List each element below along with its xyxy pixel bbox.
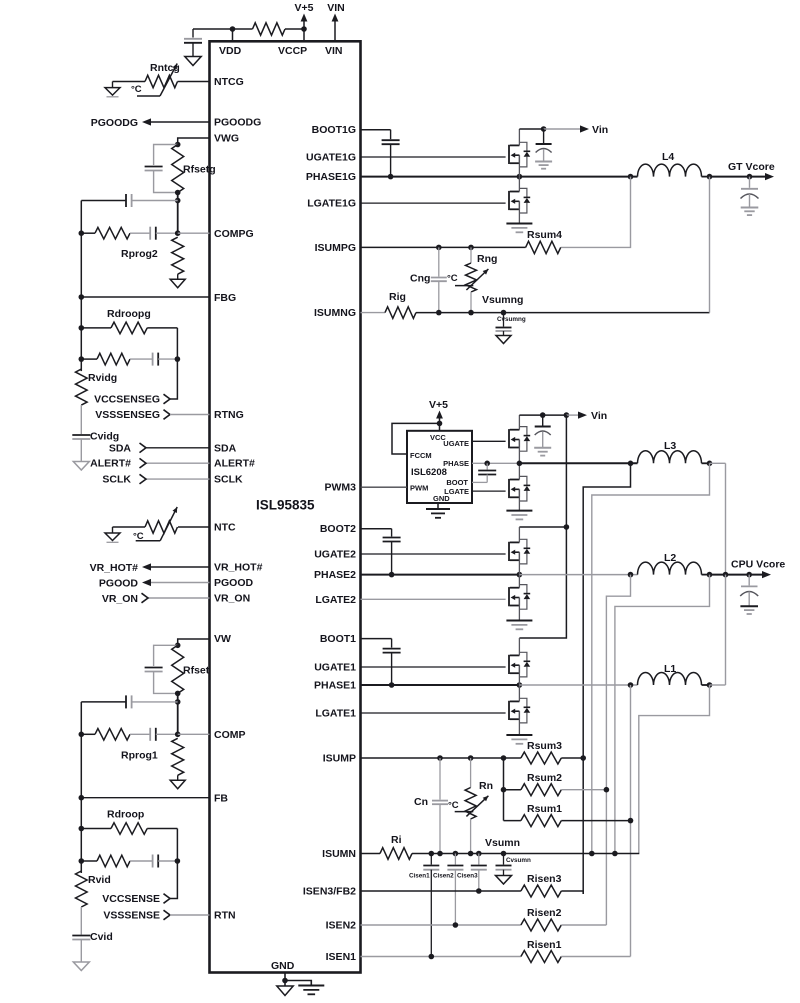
ground below VDD capacitor [185, 57, 201, 66]
connector VCCSENSE [164, 894, 171, 904]
capacitor Vin decoupling phase3 [542, 415, 544, 425]
ground below Rprog2 [170, 279, 185, 288]
node VCCP stub [303, 29, 305, 41]
power V+5 arrow U2 [439, 414, 441, 423]
capacitor parallel with Rfsetg [145, 166, 163, 168]
svg-text:BOOT2: BOOT2 [320, 523, 356, 535]
wire ISUMNG riser to GT Vcore [709, 177, 711, 313]
connector VSSSENSEG [164, 410, 171, 420]
wire Vcore riser lower [725, 575, 727, 685]
transistor Q2 low-side GT [509, 188, 530, 213]
wire LGATE2 [361, 598, 506, 600]
connector ALERT# [140, 458, 147, 468]
wire Vcore riser upper [725, 463, 727, 574]
arrow CPU Vcore [762, 571, 771, 578]
svg-text:V+5: V+5 [295, 2, 314, 14]
svg-text:Vsumng: Vsumng [482, 294, 523, 306]
capacitor bootstrap 1G [390, 130, 392, 140]
capacitor bootstrap U2 [486, 463, 488, 469]
capacitor comp series [149, 728, 151, 741]
ground below GT Vcore cap [741, 207, 759, 209]
wire Risen1 to phase1 sense [561, 956, 630, 958]
ground below Cvid [73, 962, 89, 971]
svg-text:FB: FB [214, 792, 228, 804]
svg-text:RTNG: RTNG [214, 409, 244, 421]
svg-text:L1: L1 [664, 663, 676, 675]
wire ISEN2 [361, 924, 521, 926]
wire CPU Vcore rail [710, 574, 764, 576]
svg-text:Rdroopg: Rdroopg [107, 308, 151, 320]
wire Q3 drain to Vin [518, 415, 520, 430]
transistor Q8 low-side phase1 [509, 698, 530, 723]
svg-text:UGATE2: UGATE2 [314, 549, 356, 561]
ground earth at GND pin [298, 985, 324, 987]
resistor RC branch [97, 855, 130, 867]
wire phase2 line to L2 [519, 574, 637, 576]
svg-text:Rdroop: Rdroop [107, 809, 144, 821]
wire SDA [146, 447, 210, 449]
op-amp U1 ISL95835 IC body [210, 41, 361, 972]
node L1 output [707, 682, 713, 688]
wire vid cap stem [80, 907, 82, 935]
wire Q4 drain to phase [518, 463, 520, 479]
svg-text:VR_HOT#: VR_HOT# [90, 562, 139, 574]
capacitor Cisen1 [430, 854, 432, 865]
wire left vertical below FB [80, 798, 82, 873]
node VCC U2 [437, 421, 443, 427]
wire Vin rail lower [519, 527, 566, 638]
node CPU Vcore cap [746, 572, 752, 578]
capacitor Cisen2 [454, 854, 456, 865]
wire Q2 source to ground [518, 201, 520, 223]
resistor Rvid [76, 871, 88, 907]
node Cisen2 tap [453, 851, 459, 857]
wire phase3 sense bend [583, 463, 630, 758]
wire Rsum2 [504, 789, 521, 791]
node Rsum3 to phase3 sense [580, 755, 586, 761]
ground below Q2 [506, 223, 532, 225]
thermistor Rn [470, 758, 472, 788]
wire ISEN1 [361, 956, 521, 958]
capacitor upper comp branch [125, 194, 127, 207]
wire left vertical below FB [80, 297, 82, 371]
node phase3 FET junction [517, 461, 523, 467]
wire upper cap branch [81, 701, 126, 703]
wire UGATE1G [361, 156, 506, 158]
node Rn bottom [468, 851, 474, 857]
wire phase2 sense bend [606, 575, 630, 925]
capacitor CPU Vcore output [748, 575, 750, 586]
inductor L2 [638, 562, 702, 575]
svg-text:Rng: Rng [477, 253, 497, 265]
wire UGATE2 [361, 553, 506, 555]
capacitor Cvsumn [503, 854, 505, 865]
svg-text:Cvidg: Cvidg [90, 431, 119, 443]
wire GT Vcore rail [710, 176, 767, 178]
transistor Q3 high-side phase3 [509, 427, 530, 452]
node droop branch [79, 826, 85, 832]
svg-text:BOOT1: BOOT1 [320, 633, 356, 645]
capacitor RC branch [152, 353, 154, 366]
wire SCLK [146, 478, 210, 480]
node Rn top [468, 755, 474, 761]
connector VCCSENSEG [164, 394, 171, 404]
svg-text:Vin: Vin [592, 124, 608, 136]
wire ISUMN [361, 853, 381, 855]
svg-text:ISEN1: ISEN1 [326, 951, 357, 963]
capacitor bootstrap 2 [391, 529, 393, 537]
capacitor parallel with Rfset [145, 667, 163, 669]
node RC branch [79, 356, 85, 362]
capacitor GT Vcore output [749, 177, 751, 188]
svg-text:LGATE1: LGATE1 [315, 708, 356, 720]
svg-text:Cisen3: Cisen3 [457, 873, 478, 880]
wire FCCM loop U2 [392, 423, 440, 454]
svg-text:VDD: VDD [219, 45, 242, 57]
wire vid cap stem [80, 405, 82, 434]
node Rng top [468, 245, 474, 251]
svg-text:RTN: RTN [214, 910, 236, 922]
capacitor RC branch [152, 855, 154, 868]
svg-text:Rvidg: Rvidg [88, 372, 117, 384]
node phase3 sense branch [628, 461, 634, 467]
svg-text:Cn: Cn [414, 796, 428, 808]
wire Q3 source to phase [518, 440, 520, 464]
node Rsum branch [501, 755, 507, 761]
wire VR_HOT# [149, 566, 210, 568]
node droop branch [79, 325, 85, 331]
wire Rsum1 [504, 820, 521, 822]
svg-text:LGATE2: LGATE2 [315, 594, 356, 606]
svg-text:ISUMPG: ISUMPG [315, 242, 356, 254]
svg-text:°C: °C [131, 84, 142, 95]
svg-text:LGATE1G: LGATE1G [307, 198, 356, 210]
ground below CPU Vcore cap [740, 605, 758, 607]
svg-text:Rsum4: Rsum4 [527, 229, 562, 241]
svg-text:Rvid: Rvid [88, 874, 111, 886]
resistor Risen2 [521, 919, 561, 931]
wire VR_ON [148, 597, 210, 599]
wire BOOT1G [361, 129, 391, 131]
arrow GT Vcore [765, 173, 774, 180]
node L4 output [707, 174, 713, 180]
arrow Vin phase3 [578, 412, 587, 419]
wire NTC pin [178, 526, 210, 528]
capacitor Cng [438, 247, 440, 276]
resistor Rig [385, 307, 416, 319]
wire center vertical node [177, 693, 179, 734]
node VDD stub [232, 29, 234, 41]
ground below Vin cap phase3 [534, 447, 551, 449]
transistor Q5 high-side phase2 [509, 539, 530, 564]
svg-text:VSSSENSE: VSSSENSE [103, 910, 160, 922]
node Vin rail phase2 tap [564, 524, 570, 530]
wire Risen3 to phase3 sense [561, 891, 583, 894]
svg-text:ALERT#: ALERT# [214, 458, 255, 470]
svg-text:PHASE2: PHASE2 [314, 569, 356, 581]
resistor Risen1 [521, 951, 561, 963]
node Rsum2 to phase2 sense [604, 787, 610, 793]
svg-text:Rfset: Rfset [183, 664, 210, 676]
wire BOOT1 [361, 638, 392, 640]
wire Q6 drain to phase [518, 575, 520, 588]
wire Q1 drain to Vin [518, 129, 520, 145]
svg-text:PGOOD: PGOOD [99, 578, 139, 590]
node Rsum1 to phase1 sense [628, 818, 634, 824]
node Cn top [437, 755, 443, 761]
capacitor Cvid [72, 935, 90, 937]
svg-text:Cvsumng: Cvsumng [497, 316, 526, 323]
wire Q4 source to ground [518, 489, 520, 510]
wire VCC stub U2 [439, 423, 441, 430]
wire LGATE1G [361, 202, 506, 204]
svg-text:SDA: SDA [214, 442, 237, 454]
svg-text:VR_ON: VR_ON [214, 593, 250, 605]
svg-text:SCLK: SCLK [214, 474, 243, 486]
svg-text:V+5: V+5 [429, 399, 448, 411]
ground below Cvsumn [496, 876, 512, 885]
wire ISUMNG [361, 312, 386, 314]
wire Q5 source to phase [518, 552, 520, 574]
wire RTN pin [170, 914, 210, 916]
node Cng top [436, 245, 442, 251]
wire GND stub U2 [437, 503, 439, 509]
svg-text:ISUMN: ISUMN [322, 848, 356, 860]
resistor Rsum3 [521, 752, 561, 764]
wire PHASE1G [361, 176, 638, 178]
wire ALERT# [146, 462, 210, 464]
svg-text:VCCSENSE: VCCSENSE [102, 893, 160, 905]
wire Q6 source to ground [518, 598, 520, 621]
node Cisen1 tap [429, 851, 435, 857]
svg-text:Rfsetg: Rfsetg [183, 164, 216, 176]
resistor Rsum4 [526, 241, 561, 253]
wire PHASE2 [361, 574, 520, 576]
ground below Cvidg [73, 462, 89, 471]
svg-text:UGATE1: UGATE1 [314, 662, 356, 674]
svg-text:ISL95835: ISL95835 [256, 498, 315, 513]
node RC branch [79, 858, 85, 864]
wire comp pin [178, 733, 210, 735]
ground below Q4 [506, 510, 532, 512]
ground below Cvsumng [496, 336, 511, 344]
wire cap loop left of Rfsetg [154, 145, 178, 166]
svg-text:GND: GND [433, 494, 450, 503]
wire LGATE U2 to Q4 [472, 490, 506, 492]
capacitor Cvsumng [503, 313, 505, 327]
svg-text:VW: VW [214, 633, 231, 645]
connector VSSSENSE [164, 910, 171, 920]
svg-text:BOOT: BOOT [446, 478, 468, 487]
capacitor comp series [149, 227, 151, 240]
wire Q2 drain to phase [518, 177, 520, 192]
node FB junction [79, 294, 85, 300]
svg-text:CPU Vcore: CPU Vcore [731, 559, 785, 571]
connector SCLK [140, 474, 147, 484]
svg-text:L2: L2 [664, 552, 676, 564]
ground below Rprog1 [170, 780, 185, 789]
power VIN arrow top [334, 17, 336, 41]
resistor Rsum1 [521, 815, 561, 827]
node Vin rail top [564, 412, 570, 418]
capacitor upper comp branch [125, 695, 127, 708]
transistor Q6 low-side phase2 [509, 585, 530, 610]
svg-text:VCCSENSEG: VCCSENSEG [94, 394, 160, 406]
transistor Q7 high-side phase1 [509, 652, 530, 677]
inductor L3 [638, 451, 702, 464]
wire UGATE1 [361, 666, 506, 668]
node Cisen3 tap [476, 851, 482, 857]
svg-text:PHASE1: PHASE1 [314, 680, 356, 692]
wire droop right vertical [170, 829, 177, 899]
wire Risen2 to phase2 sense [561, 924, 606, 926]
node comp line junction [79, 732, 85, 738]
node Cvsumn tap [501, 851, 507, 857]
svg-text:PWM3: PWM3 [325, 482, 357, 494]
svg-text:Rsum2: Rsum2 [527, 772, 562, 784]
ground below NTCG wire [112, 82, 114, 88]
ground arrow at GND pin [277, 986, 293, 996]
wire phase1 line to L1 [519, 684, 637, 686]
svg-text:COMP: COMP [214, 729, 246, 741]
wire phase1 sense vertical [630, 685, 632, 957]
wire Vin node 1G [519, 128, 543, 130]
svg-text:BOOT1G: BOOT1G [312, 124, 356, 136]
svg-text:ISUMNG: ISUMNG [314, 307, 356, 319]
wire Q7 drain to Vin rail [518, 638, 520, 655]
node Vsumn L2 tie [612, 851, 618, 857]
svg-text:FBG: FBG [214, 292, 236, 304]
svg-text:Vin: Vin [591, 410, 607, 422]
op-amp U2 ISL6208 driver body [407, 431, 472, 503]
resistor comp series [95, 729, 130, 741]
node L3 output [707, 461, 713, 467]
thermistor NTC [145, 521, 178, 533]
thermistor Rntcg [145, 75, 178, 87]
arrow Vin 1G [580, 125, 589, 132]
wire ISUMP [361, 757, 521, 759]
resistor Rfset [172, 645, 184, 693]
capacitor Vin decoupling 1G [543, 129, 545, 143]
svg-text:PHASE: PHASE [443, 459, 469, 468]
node GT Vcore cap [747, 174, 753, 180]
svg-text:L3: L3 [664, 440, 676, 452]
wire GND pin stub [284, 973, 286, 981]
svg-text:Rn: Rn [479, 780, 493, 792]
wire comp pin [178, 232, 210, 234]
capacitor bootstrap 1 [391, 639, 393, 648]
wire cap loop left of Rfset [154, 645, 178, 666]
ground below NTC wire [112, 527, 114, 533]
svg-text:Rntcg: Rntcg [150, 62, 180, 74]
svg-text:PHASE1G: PHASE1G [306, 171, 356, 183]
svg-text:VSSSENSEG: VSSSENSEG [95, 409, 160, 421]
node comp line junction [79, 230, 85, 236]
node Vcore riser crossing [723, 572, 729, 578]
wire FB pin [81, 296, 209, 298]
svg-text:Risen1: Risen1 [527, 939, 562, 951]
svg-text:VWG: VWG [214, 133, 239, 145]
wire PHASE U2 [472, 462, 519, 464]
svg-text:Cvid: Cvid [90, 931, 113, 943]
svg-text:Rig: Rig [389, 291, 406, 303]
wire NTCG pin [178, 81, 210, 83]
svg-text:PGOODG: PGOODG [214, 117, 261, 129]
resistor Rprog2 [172, 237, 184, 274]
wire L2 to Vsumn bend [615, 575, 710, 854]
ground below Q6 [506, 620, 532, 622]
wire Q8 drain to phase [518, 685, 520, 701]
svg-text:ALERT#: ALERT# [90, 458, 131, 470]
inductor L4 [638, 164, 702, 177]
wire Q8 source to ground [518, 711, 520, 734]
capacitor Cisen3 [478, 854, 480, 865]
svg-text:VCCP: VCCP [278, 45, 307, 57]
wire Vin node phase3 [519, 414, 542, 416]
svg-text:UGATE: UGATE [443, 439, 469, 448]
svg-text:SDA: SDA [109, 442, 132, 454]
ground below Vin cap 1G [535, 161, 552, 163]
power V+5 arrow top [303, 17, 305, 29]
resistor Rsum2 [521, 784, 561, 796]
wire GND to earth [285, 981, 311, 986]
node FB junction [79, 795, 85, 801]
wire PWM3 to U2 [361, 486, 408, 488]
resistor Risen3 [521, 885, 561, 897]
inductor L1 [638, 673, 702, 686]
svg-text:Cvsumn: Cvsumn [506, 857, 531, 864]
svg-text:NTCG: NTCG [214, 76, 244, 88]
svg-text:PGOODG: PGOODG [91, 117, 138, 129]
wire PGOOD [149, 582, 210, 584]
transistor Q1 high-side GT [509, 142, 530, 167]
svg-text:GND: GND [271, 960, 295, 972]
wire Rfsetg VW pin wire [178, 138, 210, 145]
wire Rfset VW pin wire [178, 639, 210, 645]
resistor comp series [95, 227, 130, 239]
svg-text:ISUMP: ISUMP [323, 753, 356, 765]
wire phase3 sense lower [582, 758, 584, 894]
svg-text:FCCM: FCCM [410, 451, 432, 460]
resistor Ri [380, 848, 412, 860]
wire UGATE U2 to Q3 [472, 440, 506, 442]
wire VDD-VCCP top rail [193, 28, 253, 30]
wire droop right vertical [170, 328, 177, 399]
wire RTN pin [170, 414, 210, 416]
resistor RC branch [97, 353, 130, 365]
wire Q7 source to phase [518, 665, 520, 685]
svg-text:Ri: Ri [391, 834, 402, 846]
node L2 output [707, 572, 713, 578]
wire BOOT U2 [472, 481, 487, 483]
svg-text:PGOOD: PGOOD [214, 577, 254, 589]
wire Q5 drain to Vin rail [518, 527, 520, 542]
svg-text:COMPG: COMPG [214, 228, 254, 240]
svg-text:°C: °C [447, 273, 458, 284]
wire left vertical comp node [80, 201, 82, 298]
wire ISUMPG [361, 246, 526, 248]
svg-text:VR_ON: VR_ON [102, 593, 138, 605]
svg-text:PWM: PWM [410, 484, 428, 493]
svg-text:SCLK: SCLK [102, 474, 131, 486]
wire L1 to Vcore riser [710, 684, 726, 686]
resistor between VDD and VCCP [253, 23, 286, 35]
svg-text:NTC: NTC [214, 522, 236, 534]
resistor Rdroop [111, 823, 147, 835]
svg-text:ISL6208: ISL6208 [411, 467, 447, 478]
node GND junction [282, 978, 288, 984]
wire L3 to Vsumn bend [592, 463, 710, 853]
